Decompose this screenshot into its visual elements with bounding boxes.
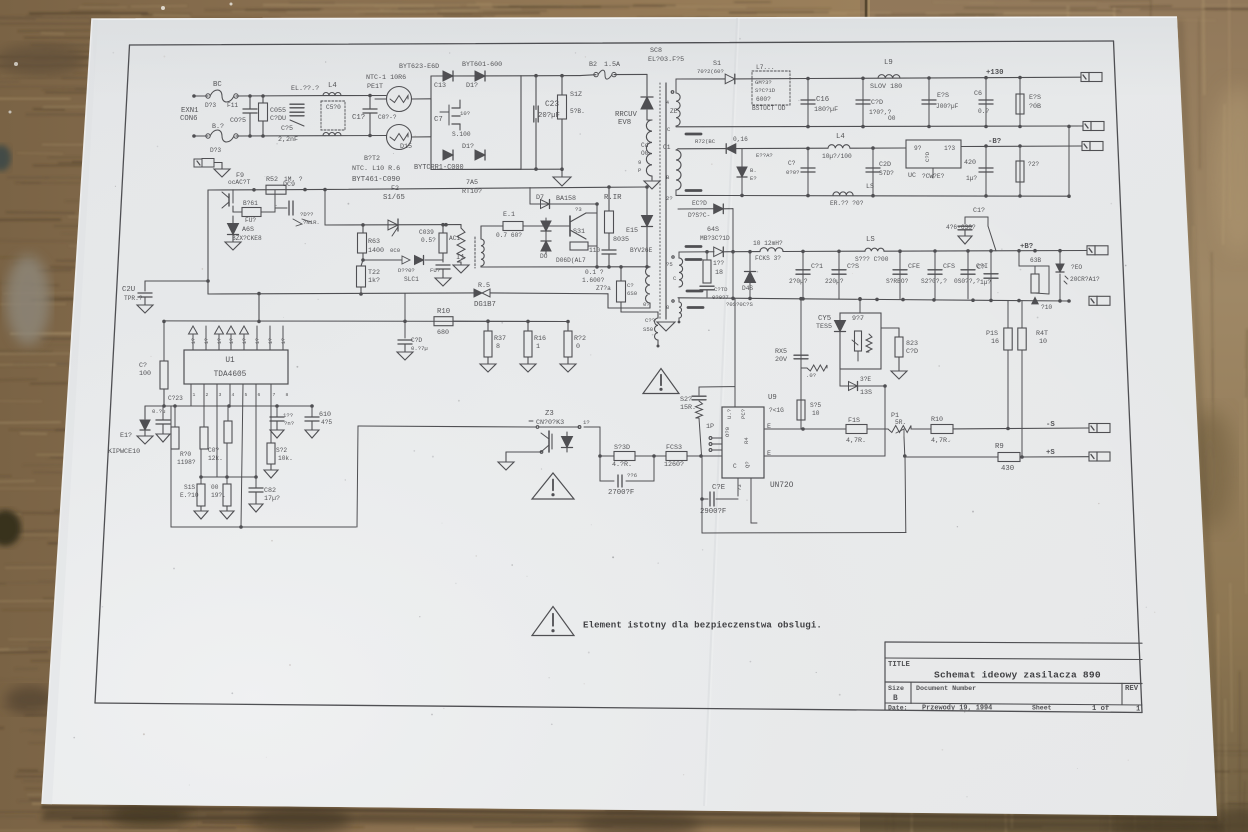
- svg-text:8: 8: [496, 343, 500, 351]
- svg-text:R4: R4: [743, 437, 750, 444]
- svg-text:0?0?7: 0?0?7: [712, 294, 729, 301]
- svg-text:2?0µ?: 2?0µ?: [789, 278, 808, 285]
- svg-text:4.?R.: 4.?R.: [612, 461, 632, 469]
- svg-text:1?: 1?: [204, 338, 210, 344]
- svg-text:E.?10: E.?10: [180, 492, 199, 499]
- svg-text:E?S: E?S: [1029, 94, 1041, 102]
- svg-text:NTC-1 10R6: NTC-1 10R6: [366, 74, 406, 82]
- svg-text:L4: L4: [328, 82, 337, 90]
- svg-text:0C0: 0C0: [390, 247, 401, 254]
- svg-text:D?S?C-: D?S?C-: [688, 212, 710, 219]
- svg-text:C1?: C1?: [352, 114, 365, 122]
- svg-text:REV: REV: [1125, 685, 1139, 693]
- svg-text:0.7 60?: 0.7 60?: [496, 232, 522, 239]
- svg-text:1?: 1?: [191, 338, 197, 344]
- svg-text:4: 4: [232, 392, 235, 398]
- svg-text:C?D: C?D: [411, 337, 422, 344]
- svg-text:D4S: D4S: [742, 285, 753, 292]
- svg-text:R?0: R?0: [180, 451, 191, 458]
- svg-text:FCS3: FCS3: [666, 444, 682, 452]
- svg-text:CFS: CFS: [943, 263, 955, 271]
- svg-text:70?2(60?: 70?2(60?: [697, 68, 724, 75]
- svg-text:C?: C?: [627, 282, 634, 289]
- svg-text:8: 8: [286, 392, 289, 398]
- svg-text:1: 1: [193, 392, 196, 398]
- svg-text:5: 5: [245, 392, 248, 398]
- svg-text:2: 2: [206, 392, 209, 398]
- svg-text:UN72O: UN72O: [770, 482, 794, 490]
- svg-text:5R.: 5R.: [895, 419, 906, 426]
- svg-text:TITLE: TITLE: [888, 661, 911, 669]
- svg-text:C?DU: C?DU: [270, 115, 286, 123]
- svg-text:C7: C7: [434, 116, 443, 124]
- svg-text:?2?: ?2?: [1028, 161, 1039, 168]
- svg-text:18: 18: [715, 269, 723, 277]
- svg-text:D?3: D?3: [205, 102, 216, 109]
- svg-text:D06D(AL7: D06D(AL7: [556, 257, 586, 264]
- svg-text:D1?: D1?: [462, 143, 474, 151]
- svg-text:U.?: U.?: [726, 409, 733, 419]
- svg-text:8035: 8035: [613, 236, 629, 244]
- svg-text:Date:: Date:: [888, 704, 908, 711]
- svg-text:I1: I1: [456, 254, 465, 262]
- svg-text:A6S: A6S: [242, 226, 254, 234]
- svg-text:823: 823: [906, 340, 918, 348]
- svg-text:C?TD: C?TD: [714, 286, 728, 293]
- svg-text:Schemat ideowy zasilacza 890: Schemat ideowy zasilacza 890: [934, 670, 1101, 681]
- svg-text:9?: 9?: [914, 145, 922, 152]
- svg-text:S?REO?: S?REO?: [886, 278, 909, 285]
- svg-text:0S0??,?: 0S0??,?: [954, 278, 980, 285]
- svg-text:C?: C?: [788, 160, 796, 167]
- svg-text:F11: F11: [227, 102, 238, 109]
- svg-text:BYT601-600: BYT601-600: [462, 61, 502, 69]
- svg-text:00: 00: [211, 484, 219, 491]
- svg-text:EC?D: EC?D: [692, 200, 707, 207]
- svg-text:0.1 ?: 0.1 ?: [585, 269, 604, 276]
- svg-text:R16: R16: [534, 335, 546, 343]
- svg-text:20V: 20V: [775, 356, 787, 364]
- svg-text:6S0: 6S0: [627, 290, 638, 297]
- svg-text:20CR?A1?: 20CR?A1?: [1070, 276, 1100, 283]
- svg-text:R63: R63: [368, 238, 380, 246]
- svg-text:0: 0: [576, 343, 580, 351]
- svg-text:DC9: DC9: [283, 181, 295, 189]
- svg-text:1?: 1?: [217, 338, 223, 344]
- svg-text:4?5: 4?5: [321, 419, 332, 426]
- svg-text:0.?7µ: 0.?7µ: [411, 345, 428, 352]
- svg-text:BSTUCT UD: BSTUCT UD: [752, 105, 786, 112]
- svg-text:420: 420: [964, 159, 976, 167]
- svg-text:RX5: RX5: [775, 348, 787, 356]
- svg-text:BA158: BA158: [556, 195, 576, 203]
- svg-text:C2U: C2U: [122, 286, 135, 294]
- svg-text:10?: 10?: [460, 110, 470, 117]
- svg-text:?n?: ?n?: [284, 420, 294, 427]
- svg-text:B?61: B?61: [243, 200, 258, 207]
- svg-text:MB?3C?1D: MB?3C?1D: [700, 235, 730, 242]
- svg-text:9?7: 9?7: [852, 315, 864, 323]
- svg-text:C?5: C?5: [281, 125, 293, 133]
- svg-text:FCKS 3?: FCKS 3?: [755, 255, 781, 262]
- svg-text:13S: 13S: [860, 389, 872, 397]
- svg-text:S?5: S?5: [810, 402, 821, 409]
- svg-text:BYV26E: BYV26E: [630, 247, 653, 254]
- svg-text:1k?: 1k?: [368, 277, 380, 285]
- svg-text:430: 430: [1001, 465, 1014, 473]
- svg-text:S7D?: S7D?: [879, 170, 894, 177]
- svg-text:U9: U9: [768, 394, 777, 402]
- svg-text:10µ?/100: 10µ?/100: [822, 153, 852, 160]
- svg-text:NTC. L10 R.6: NTC. L10 R.6: [352, 165, 400, 173]
- svg-text:4: 4: [666, 100, 669, 106]
- svg-text:2?: 2?: [666, 195, 673, 202]
- svg-text:LS: LS: [866, 183, 874, 191]
- svg-text:S1S: S1S: [184, 484, 195, 491]
- svg-text:S??? C?00: S??? C?00: [855, 256, 889, 263]
- svg-text:S1: S1: [713, 60, 721, 68]
- svg-text:U1: U1: [225, 357, 235, 365]
- svg-text:+130: +130: [986, 69, 1004, 77]
- svg-text:0?0?: 0?0?: [786, 169, 799, 176]
- svg-text:10 12mH?: 10 12mH?: [753, 240, 783, 247]
- svg-text:17µ?: 17µ?: [264, 495, 280, 503]
- svg-text:?D??: ?D??: [300, 211, 313, 218]
- svg-text:C0?-?: C0?-?: [378, 114, 397, 121]
- svg-text:?EO: ?EO: [1071, 264, 1082, 271]
- svg-text:T22: T22: [368, 269, 380, 277]
- svg-text:EXN1: EXN1: [181, 107, 199, 115]
- svg-text:TDA4605: TDA4605: [214, 371, 247, 379]
- svg-text:R4T: R4T: [1036, 330, 1048, 338]
- svg-text:2,2nF: 2,2nF: [278, 136, 298, 144]
- svg-text:600?: 600?: [756, 96, 771, 103]
- svg-text:1400: 1400: [368, 247, 384, 255]
- svg-text:1?: 1?: [268, 338, 274, 344]
- svg-text:R52: R52: [266, 176, 278, 184]
- svg-text:S?C?1D: S?C?1D: [755, 87, 776, 94]
- svg-text:ocAC?T: ocAC?T: [228, 179, 251, 186]
- svg-text:10: 10: [1039, 338, 1047, 346]
- svg-text:220µ?: 220µ?: [825, 278, 844, 285]
- svg-text:ER.?? ?0?: ER.?? ?0?: [830, 200, 864, 207]
- svg-text:?10: ?10: [1041, 304, 1052, 311]
- svg-text:Document Number: Document Number: [916, 685, 976, 693]
- svg-text:J00?µF: J00?µF: [936, 103, 959, 110]
- svg-text:L7...: L7...: [756, 64, 775, 71]
- svg-text:+B?: +B?: [1020, 243, 1033, 251]
- svg-text:BYTCRR1-C000: BYTCRR1-C000: [414, 164, 464, 172]
- svg-text:P1S: P1S: [986, 330, 998, 338]
- svg-text:CON6: CON6: [180, 115, 198, 123]
- svg-text:6: 6: [258, 392, 261, 398]
- svg-text:E.1: E.1: [503, 211, 515, 219]
- svg-text:+S: +S: [1046, 449, 1055, 457]
- svg-text:DO: DO: [540, 253, 548, 260]
- svg-text:B: B: [893, 695, 898, 703]
- svg-text:??6: ??6: [627, 472, 637, 479]
- svg-text:BYT623-E6D: BYT623-E6D: [399, 63, 439, 71]
- svg-text:S31: S31: [573, 228, 585, 236]
- svg-text:0?: 0?: [643, 301, 650, 308]
- svg-text:1?: 1?: [255, 338, 261, 344]
- svg-text:BYT461-C090: BYT461-C090: [352, 176, 400, 184]
- svg-text:S?3D: S?3D: [614, 444, 630, 452]
- svg-text:0.5?: 0.5?: [421, 237, 436, 244]
- svg-text:63B: 63B: [1030, 257, 1041, 264]
- svg-text:C16: C16: [816, 96, 829, 104]
- svg-text:O?0: O?0: [724, 426, 731, 437]
- svg-text:1?: 1?: [229, 338, 235, 344]
- svg-text:C82: C82: [264, 487, 276, 495]
- svg-text:S.100: S.100: [452, 131, 471, 138]
- svg-text:R?2: R?2: [574, 335, 586, 343]
- svg-text:C?23: C?23: [168, 395, 183, 402]
- svg-text:C?S: C?S: [847, 263, 859, 271]
- svg-text:16: 16: [991, 338, 999, 346]
- svg-text:7A5: 7A5: [466, 179, 478, 187]
- svg-text:1260?: 1260?: [664, 461, 684, 469]
- svg-text:FU?: FU?: [245, 217, 256, 224]
- svg-text:7: 7: [273, 392, 276, 398]
- svg-text:1 of: 1 of: [1092, 705, 1109, 713]
- svg-text:CY5: CY5: [818, 315, 831, 323]
- svg-text:?0B: ?0B: [1029, 103, 1041, 111]
- svg-text:110: 110: [589, 247, 600, 254]
- svg-text:-B?: -B?: [988, 138, 1001, 146]
- svg-text:EL?03.F?5: EL?03.F?5: [648, 56, 684, 64]
- svg-text:19?.: 19?.: [211, 492, 226, 499]
- svg-text:CN?0?K3: CN?0?K3: [536, 419, 564, 427]
- svg-text:D1?: D1?: [466, 82, 478, 90]
- svg-text:1??: 1??: [713, 260, 724, 267]
- svg-text:10k.: 10k.: [278, 455, 293, 462]
- svg-text:EV8: EV8: [618, 119, 631, 127]
- svg-text:B.?: B.?: [212, 123, 224, 131]
- svg-text:1198?: 1198?: [177, 459, 196, 466]
- svg-text:L9: L9: [884, 59, 893, 67]
- svg-text:TES5: TES5: [816, 323, 832, 331]
- svg-text:610: 610: [319, 411, 331, 419]
- svg-text:1?: 1?: [242, 338, 248, 344]
- svg-text:S50: S50: [643, 326, 654, 333]
- svg-text:5?B.: 5?B.: [570, 108, 585, 115]
- svg-text:E: E: [767, 450, 771, 458]
- svg-text:C2D: C2D: [879, 161, 891, 169]
- svg-text:R10: R10: [931, 416, 943, 424]
- svg-text:R37: R37: [494, 335, 506, 343]
- svg-text:2900?F: 2900?F: [700, 508, 726, 516]
- svg-text:F1S: F1S: [848, 417, 860, 425]
- svg-text:0.?: 0.?: [978, 108, 989, 115]
- svg-text:BZX?CKE8: BZX?CKE8: [232, 235, 262, 242]
- svg-text:EL.??.?: EL.??.?: [291, 85, 319, 93]
- svg-text:3: 3: [219, 392, 222, 398]
- svg-text:E??A?: E??A?: [756, 152, 773, 159]
- svg-text:R10: R10: [437, 308, 450, 316]
- svg-text:C?: C?: [977, 264, 985, 272]
- svg-text:?3: ?3: [736, 484, 743, 491]
- svg-text:C?D: C?D: [906, 348, 918, 356]
- svg-text:C?D: C?D: [871, 99, 883, 107]
- svg-text:180?µF: 180?µF: [814, 106, 838, 114]
- svg-text:C0?: C0?: [208, 447, 219, 454]
- svg-text:F2: F2: [391, 185, 399, 193]
- svg-text:S2?0?,?: S2?0?,?: [921, 278, 947, 285]
- svg-text:RT10?: RT10?: [462, 188, 482, 196]
- svg-text:9: 9: [638, 159, 641, 166]
- svg-text:C13: C13: [434, 82, 446, 90]
- svg-text:B.: B.: [750, 167, 757, 174]
- svg-text:15R.: 15R.: [680, 404, 696, 412]
- svg-text:R72(BC: R72(BC: [695, 138, 716, 145]
- svg-text:Z3: Z3: [545, 410, 554, 418]
- svg-text:1P: 1P: [706, 423, 714, 431]
- svg-text:C?1: C?1: [811, 263, 823, 271]
- svg-text:C?: C?: [139, 362, 147, 370]
- svg-text:20?µF: 20?µF: [538, 112, 560, 120]
- svg-text:O0: O0: [888, 115, 896, 122]
- svg-text:1??: 1??: [283, 412, 293, 419]
- svg-text:R.5: R.5: [478, 282, 490, 290]
- svg-text:4,7R.: 4,7R.: [846, 437, 866, 445]
- svg-text:D?3: D?3: [210, 147, 221, 154]
- svg-text:C039: C039: [419, 229, 434, 236]
- svg-text:R.IR: R.IR: [604, 194, 622, 202]
- svg-text:C1?: C1?: [973, 207, 985, 215]
- svg-text:C??: C??: [645, 317, 655, 324]
- svg-text:KIPWCE10: KIPWCE10: [108, 448, 140, 456]
- svg-text:D??0?: D??0?: [398, 267, 415, 274]
- svg-text:C6: C6: [974, 90, 982, 98]
- svg-text:12k.: 12k.: [208, 455, 223, 462]
- svg-text:4?6-630?: 4?6-630?: [946, 224, 976, 231]
- svg-text:PE1T: PE1T: [367, 83, 383, 91]
- svg-text:B?T2: B?T2: [364, 155, 380, 163]
- svg-text:-S: -S: [1046, 421, 1055, 429]
- svg-text:1: 1: [1136, 705, 1141, 713]
- svg-text:E?S: E?S: [937, 92, 949, 100]
- svg-text:?0S?0C?S: ?0S?0C?S: [726, 301, 753, 308]
- svg-text:C?D: C?D: [924, 151, 931, 162]
- svg-text:CO?5: CO?5: [230, 117, 246, 125]
- svg-text:D15: D15: [400, 143, 412, 151]
- svg-text:Element istotny dla bezpieczen: Element istotny dla bezpieczenstwa obslu…: [583, 620, 822, 631]
- svg-text:TPR.?: TPR.?: [124, 295, 143, 302]
- svg-text:Q?: Q?: [744, 461, 751, 468]
- svg-text:BC: BC: [213, 81, 222, 89]
- svg-text:100: 100: [139, 370, 151, 378]
- svg-text:E?: E?: [750, 175, 757, 182]
- svg-text:1?: 1?: [281, 338, 287, 344]
- svg-text:E1?: E1?: [120, 432, 132, 440]
- svg-text:?N1R.: ?N1R.: [303, 219, 320, 226]
- svg-text:E15: E15: [626, 227, 638, 235]
- svg-text:PC?: PC?: [740, 409, 747, 419]
- svg-text:D7: D7: [536, 194, 544, 202]
- svg-text:S2?: S2?: [680, 396, 692, 404]
- svg-text:S1Z: S1Z: [570, 91, 582, 99]
- svg-text:1.600?: 1.600?: [582, 277, 605, 284]
- svg-text:SLOV 180: SLOV 180: [870, 83, 902, 91]
- svg-text:3?E: 3?E: [860, 376, 871, 383]
- svg-text:S1/65: S1/65: [383, 194, 405, 202]
- svg-text:?<1G: ?<1G: [769, 407, 784, 414]
- svg-text:1.5A: 1.5A: [604, 61, 621, 69]
- svg-text:680: 680: [437, 329, 449, 337]
- svg-text:C5?0: C5?0: [326, 104, 341, 111]
- svg-text:FU?: FU?: [430, 267, 440, 274]
- svg-text:?3: ?3: [575, 206, 582, 213]
- svg-text:SC8: SC8: [650, 47, 662, 55]
- svg-text:.0?: .0?: [806, 372, 816, 379]
- svg-text:Sheet: Sheet: [1032, 705, 1052, 712]
- svg-text:DG1B7: DG1B7: [474, 301, 496, 309]
- svg-text:10: 10: [812, 410, 820, 417]
- svg-text:1?3: 1?3: [944, 145, 955, 152]
- svg-text:C1: C1: [663, 144, 671, 151]
- svg-text:CFE: CFE: [908, 263, 920, 271]
- svg-text:R9: R9: [995, 443, 1004, 451]
- svg-text:Z7?a: Z7?a: [596, 285, 611, 292]
- svg-text:0,16: 0,16: [733, 136, 748, 143]
- svg-text:2700?F: 2700?F: [608, 489, 634, 497]
- svg-text:1?: 1?: [583, 419, 590, 426]
- svg-text:64S: 64S: [707, 226, 719, 234]
- svg-text:Size: Size: [888, 685, 904, 693]
- svg-text:4,7R.: 4,7R.: [931, 437, 951, 445]
- svg-text:GM?3?: GM?3?: [755, 79, 772, 86]
- svg-text:SLC1: SLC1: [404, 276, 419, 283]
- svg-text:Przewody 19, 1994: Przewody 19, 1994: [922, 704, 992, 712]
- svg-text:L4: L4: [836, 133, 845, 141]
- svg-text:?5: ?5: [666, 261, 673, 268]
- svg-text:ZE: ZE: [670, 108, 678, 115]
- svg-text:E: E: [767, 423, 771, 431]
- svg-text:S?2: S?2: [276, 447, 287, 454]
- svg-text:1µ?: 1µ?: [980, 279, 991, 286]
- svg-text:B2: B2: [589, 61, 597, 69]
- svg-text:1µ?: 1µ?: [966, 175, 977, 182]
- svg-text:LS: LS: [866, 236, 875, 244]
- svg-text:C?E: C?E: [712, 484, 725, 492]
- svg-text:UC: UC: [908, 172, 916, 180]
- svg-text:C: C: [733, 463, 737, 470]
- svg-text:C055: C055: [270, 107, 286, 115]
- svg-text:RRCUV: RRCUV: [615, 111, 638, 119]
- svg-text:1: 1: [536, 343, 540, 351]
